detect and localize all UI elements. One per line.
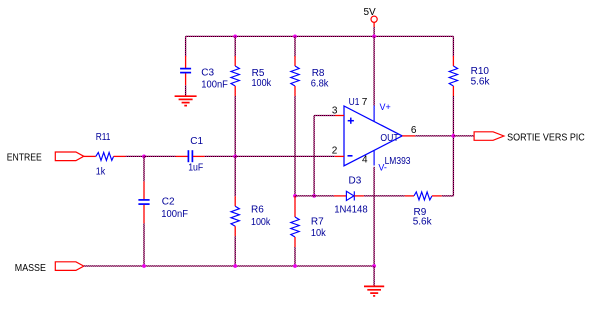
junction: mid row / C2 <box>142 155 146 159</box>
svg-text:ENTREE: ENTREE <box>7 153 42 164</box>
resistor R8 <box>291 56 299 96</box>
wire: C2 column upper <box>143 156 145 181</box>
wire: output node to port <box>453 135 474 137</box>
svg-text:100nF: 100nF <box>201 80 228 91</box>
wire: mid row down to R6 <box>234 156 236 196</box>
svg-text:C1: C1 <box>190 136 203 147</box>
wire: pin 3 horizontal from +input column <box>314 115 335 117</box>
diode D3 <box>334 191 364 200</box>
svg-text:1uF: 1uF <box>188 163 203 174</box>
resistor R9 <box>405 192 442 200</box>
wire: C2 to bottom rail <box>143 223 145 266</box>
wire: R5 column upper <box>234 36 236 56</box>
wire: R9 right end <box>442 195 454 197</box>
svg-text:R5: R5 <box>252 68 265 79</box>
capacitor C2 <box>138 181 149 223</box>
wire: top rail right end down to R10 <box>452 36 454 56</box>
junction: top rail / R5 <box>233 35 237 39</box>
wire: R8 column upper <box>294 36 296 56</box>
resistor R7 <box>291 196 299 247</box>
wire: R5 down to mid row <box>234 96 236 156</box>
wire: top rail down to op-amp V+ <box>373 36 375 105</box>
svg-text:5.6k: 5.6k <box>413 217 433 228</box>
svg-text:V+: V+ <box>380 102 391 112</box>
resistor R6 <box>231 196 239 236</box>
svg-text:2: 2 <box>332 146 338 157</box>
resistor R10 <box>449 56 457 96</box>
svg-text:U1: U1 <box>349 97 360 108</box>
svg-text:10k: 10k <box>311 228 327 239</box>
wire: R10 down to output node <box>452 96 454 136</box>
power symbol 5V <box>364 7 378 27</box>
capacitor C3 <box>180 56 191 85</box>
port connector SORTIE VERS PIC <box>474 132 504 141</box>
wire: +input column down to D3 row <box>313 116 315 196</box>
junction: top rail / 5V <box>372 35 376 39</box>
wire: R8 down to D3 row (crosses mid row) <box>294 96 296 196</box>
svg-text:6: 6 <box>411 125 417 136</box>
svg-text:OUT: OUT <box>380 133 398 144</box>
op-amp U17 LM393 <box>335 106 415 166</box>
junction: D3 row / R8 R7 <box>293 194 297 198</box>
svg-text:C2: C2 <box>162 197 175 208</box>
resistor R5 <box>231 56 239 96</box>
wire: ground stub <box>373 266 375 286</box>
wire: op-amp output to node <box>415 135 453 137</box>
wire: C3 to ground stub <box>185 85 187 96</box>
svg-text:MASSE: MASSE <box>15 263 46 274</box>
svg-text:R8: R8 <box>312 68 325 79</box>
port connector MASSE <box>55 262 84 271</box>
junction: bottom rail / R7 <box>293 264 297 268</box>
junction: mid row / R5 R6 <box>233 155 237 159</box>
wire: D3 row from R8/R7 node to diode <box>295 195 334 197</box>
wire: top supply rail <box>186 35 454 37</box>
junction: top rail / R8 <box>293 35 297 39</box>
wire: 5V stub to top rail <box>373 27 375 36</box>
svg-text:R11: R11 <box>96 132 111 143</box>
junction: bottom rail / ground <box>372 264 376 268</box>
svg-text:100k: 100k <box>252 78 273 89</box>
svg-text:R10: R10 <box>471 66 490 77</box>
svg-text:6.8k: 6.8k <box>311 79 330 90</box>
junction: D3 row / +input <box>312 194 316 198</box>
junction: bottom rail / C2 <box>142 264 146 268</box>
svg-text:C3: C3 <box>201 68 214 79</box>
svg-text:5.6k: 5.6k <box>471 77 491 88</box>
svg-text:LM393: LM393 <box>385 156 411 167</box>
ground (main) <box>364 286 384 296</box>
junction: bottom rail / R6 <box>233 264 237 268</box>
wire: op-amp V- down to bottom rail <box>373 167 375 266</box>
svg-text:100k: 100k <box>251 217 271 228</box>
svg-text:1k: 1k <box>96 167 106 178</box>
wire: mid row to op-amp pin 2 <box>235 155 335 157</box>
svg-text:100nF: 100nF <box>161 209 188 220</box>
ground (under C3) <box>175 96 197 105</box>
svg-text:R6: R6 <box>251 205 264 216</box>
wire: bottom rail <box>84 265 374 267</box>
wire: C2 node to C1 <box>144 155 176 157</box>
port connector ENTREE <box>55 152 84 161</box>
junction: output node <box>452 134 456 138</box>
svg-text:1N4148: 1N4148 <box>334 204 368 215</box>
wire: R7 to bottom rail <box>294 247 296 266</box>
svg-text:SORTIE VERS PIC: SORTIE VERS PIC <box>507 133 585 144</box>
svg-text:R7: R7 <box>311 217 324 228</box>
wire: diode cathode to R9 (crosses V- wire) <box>364 195 405 197</box>
capacitor C1 <box>176 150 205 162</box>
svg-text:4: 4 <box>362 155 368 166</box>
svg-text:7: 7 <box>362 97 368 108</box>
wire: C3 column from top rail <box>185 36 187 56</box>
wire: R6 to bottom rail <box>234 236 236 266</box>
wire: feedback column up to output node <box>452 136 454 196</box>
resistor R11 <box>84 152 126 160</box>
wire: R11 to C2 node <box>126 155 144 157</box>
wire: C1 to R5/R6 node <box>205 155 236 157</box>
svg-text:D3: D3 <box>349 175 362 186</box>
